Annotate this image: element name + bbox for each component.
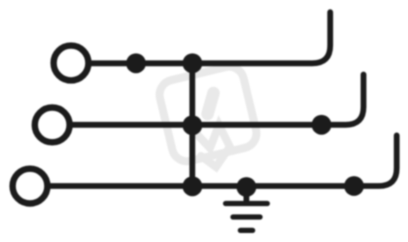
junction dot row3 C: [344, 176, 364, 196]
wire row 2: [71, 75, 364, 125]
ground bar 1: [226, 201, 268, 206]
terminal circle 2: [35, 108, 70, 143]
wire row 1: [89, 12, 330, 63]
bridge trunk wire: [189, 63, 195, 186]
ground bar 3: [240, 228, 252, 233]
junction dot row2 B: [312, 115, 332, 135]
terminal circle 1: [54, 46, 89, 81]
junction dot row1 trunk: [183, 53, 203, 73]
ground bar 2: [233, 214, 260, 219]
junction dot row3 ground: [237, 177, 257, 197]
terminal circle 3: [13, 169, 48, 204]
wire row 3: [49, 135, 397, 186]
watermark logo (rounded square): [157, 64, 260, 167]
junction dot row3 trunk: [183, 176, 203, 196]
junction dot row1 A: [126, 53, 146, 73]
ground stem: [243, 190, 249, 201]
junction dot row2 trunk: [183, 115, 203, 135]
watermark logo glyph: [208, 93, 214, 114]
